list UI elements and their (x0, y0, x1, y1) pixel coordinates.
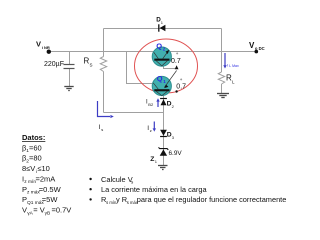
svg-text:L Max: L Max (229, 64, 239, 68)
svg-text:+: + (180, 77, 183, 82)
svg-text:z: z (150, 128, 152, 133)
svg-text:=80: =80 (29, 154, 42, 163)
svg-text:0.7: 0.7 (176, 83, 186, 90)
svg-text:6.9V: 6.9V (169, 150, 183, 157)
svg-text:8≤V: 8≤V (22, 164, 35, 173)
svg-text:Q: Q (156, 41, 162, 50)
svg-text:La corriente máxima en la carg: La corriente máxima en la carga (101, 185, 207, 194)
svg-text:= V: = V (33, 206, 44, 215)
svg-text:s: s (101, 127, 103, 132)
svg-text:≤10: ≤10 (37, 164, 49, 173)
svg-text:=0.7V: =0.7V (52, 206, 72, 215)
svg-text:Datos:: Datos: (22, 133, 45, 142)
svg-text:=60: =60 (29, 143, 42, 152)
svg-text:V: V (36, 39, 41, 48)
svg-text:=2mA: =2mA (36, 174, 56, 183)
svg-text:γB: γB (45, 210, 51, 216)
svg-text:i NR: i NR (42, 45, 50, 50)
svg-text:I: I (227, 62, 228, 67)
svg-text:Calcule V: Calcule V (101, 175, 133, 184)
svg-text:=5W: =5W (42, 195, 59, 204)
svg-text:y R: y R (116, 195, 127, 204)
svg-text:=0.5W: =0.5W (39, 185, 62, 194)
svg-text:0.7: 0.7 (171, 58, 181, 65)
svg-text:B2: B2 (148, 102, 154, 107)
svg-text:Q: Q (157, 74, 163, 83)
svg-text:o DC: o DC (255, 46, 265, 51)
svg-text:220µF: 220µF (44, 61, 64, 68)
svg-text:+: + (176, 51, 179, 56)
svg-text:para que el regulador funcione: para que el regulador funcione correctam… (137, 195, 287, 204)
svg-text:S: S (90, 63, 93, 68)
